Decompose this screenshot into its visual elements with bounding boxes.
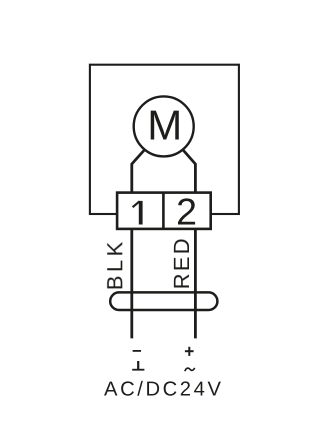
svg-text:AC/DC24V: AC/DC24V	[104, 379, 224, 401]
svg-text:BLK: BLK	[102, 238, 127, 290]
svg-text:RED: RED	[169, 236, 194, 289]
svg-text:M: M	[147, 102, 182, 149]
svg-text:2: 2	[176, 191, 197, 233]
